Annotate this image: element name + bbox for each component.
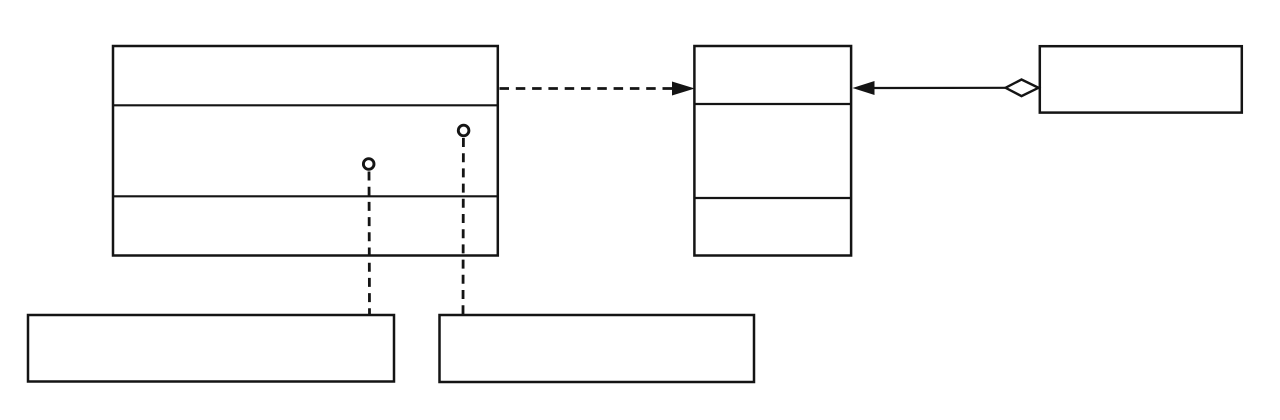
dashed dependency arrow shaft from box A to box B [500, 87, 675, 90]
interface circle 2 (lollipop on box A) [458, 125, 469, 136]
class box B (middle, three compartments) [694, 46, 851, 256]
open aggregation diamond at box C [1006, 80, 1039, 97]
class box C (top-right) [1040, 46, 1242, 112]
box B divider 2 [695, 197, 852, 199]
aggregation link shaft from box B to diamond [873, 87, 1005, 89]
class box E (bottom-middle) [440, 315, 755, 382]
class box A (large top-left) [113, 46, 498, 256]
class box D (bottom-left) [28, 315, 394, 382]
dependency arrowhead at box B left edge [672, 82, 695, 96]
interface circle 1 (lollipop on box A) [363, 159, 374, 170]
dashed realization line from circle 2 to box E [462, 138, 465, 315]
box B divider 1 [695, 103, 852, 105]
aggregation arrowhead at box B right edge [853, 81, 875, 95]
box A divider 1 [113, 104, 498, 106]
dashed realization line from circle 1 to box D [368, 172, 371, 315]
box A divider 2 [113, 195, 498, 197]
